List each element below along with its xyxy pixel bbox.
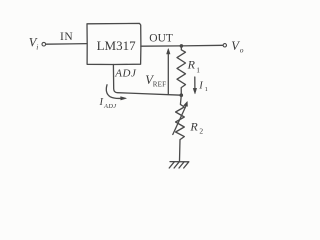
- svg-text:REF: REF: [153, 80, 166, 88]
- svg-text:2: 2: [199, 127, 203, 136]
- wire output to Vo terminal: [181, 44, 223, 47]
- arrow annotation I1 down: [194, 77, 196, 90]
- node Vi input terminal: [42, 42, 46, 46]
- node Vo output terminal: [223, 44, 226, 47]
- wire OUT from regulator to output node: [141, 45, 182, 47]
- svg-text:OUT: OUT: [149, 32, 173, 44]
- svg-text:R: R: [189, 119, 198, 133]
- svg-text:IN: IN: [60, 31, 73, 43]
- node A output junction dot: [180, 44, 184, 48]
- ground: [170, 161, 189, 163]
- arrow annotation VREF up: [167, 53, 169, 94]
- resistor R2 zigzag: [176, 95, 185, 161]
- wire input IN: [46, 43, 87, 46]
- svg-text:1: 1: [196, 65, 200, 74]
- svg-text:i: i: [36, 42, 38, 51]
- svg-text:LM317: LM317: [97, 38, 137, 53]
- svg-text:I: I: [99, 97, 104, 108]
- arrow variable adjustment on R2: [173, 107, 186, 135]
- svg-text:o: o: [240, 46, 244, 55]
- node B junction dot: [180, 93, 184, 97]
- svg-text:ADJ: ADJ: [103, 103, 117, 110]
- wire ADJ pin down and across to node B: [113, 65, 181, 96]
- svg-text:R: R: [187, 58, 196, 72]
- svg-text:I: I: [198, 81, 203, 92]
- arrow annotation IADJ hook: [106, 85, 120, 99]
- svg-text:ADJ: ADJ: [114, 67, 137, 79]
- svg-text:1: 1: [205, 86, 208, 93]
- resistor R1 zigzag: [177, 46, 186, 95]
- op-amp U1 regulator LM317 box: [87, 23, 141, 64]
